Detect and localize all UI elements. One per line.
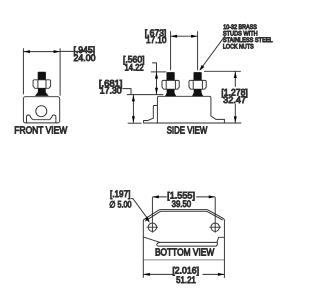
- dim .945 right extension line: [59, 48, 61, 95]
- side view body outline: [144, 96, 225, 123]
- front view stud threaded post: [38, 72, 46, 80]
- note leader line: [200, 35, 226, 70]
- side view stud 2 nut: [189, 80, 206, 89]
- dim 1.555 dimension line: [152, 196, 215, 198]
- dim .560 arrowheads: [155, 72, 158, 79]
- front view left foot: [27, 115, 33, 123]
- side view stud 1 nut: [162, 80, 179, 89]
- svg-text:32.47: 32.47: [223, 95, 246, 105]
- svg-text:51.21: 51.21: [176, 275, 196, 285]
- side view stud 2 nut facets: [193, 81, 202, 90]
- side view stud 1 lower shaft: [165, 89, 176, 96]
- dim .681 bottom extension line: [128, 122, 142, 124]
- dim 1.278 dimension line: [234, 72, 236, 123]
- front view recess line: [33, 119, 50, 121]
- svg-text:SIDE VIEW: SIDE VIEW: [167, 125, 208, 136]
- bottom view inner outline: [145, 211, 223, 221]
- dim .673 extension lines: [171, 31, 198, 70]
- dim 2.016 arrowheads: [143, 273, 150, 276]
- dim 1.555 arrowheads: [152, 195, 159, 198]
- bottom view contour diagonals: [143, 237, 224, 243]
- dim .673 dimension line: [171, 35, 198, 37]
- front view nut facets: [38, 80, 46, 88]
- svg-text:[.197]: [.197]: [110, 189, 130, 199]
- bottom view hole right: [211, 223, 219, 231]
- svg-text:24.00: 24.00: [74, 53, 96, 63]
- svg-text:14.22: 14.22: [125, 63, 144, 73]
- svg-text:BOTTOM VIEW: BOTTOM VIEW: [155, 248, 215, 259]
- dim .560 stud-top extension line: [151, 71, 166, 73]
- dim 2.016 extension lines: [143, 260, 224, 278]
- side view stud 1 nut facets: [166, 81, 175, 90]
- bottom view hole left crosshair: [147, 222, 159, 233]
- dim .673 arrowheads: [171, 35, 178, 38]
- bottom view slot: [157, 242, 218, 246]
- front view body: [23, 97, 59, 123]
- dim .197 leader arrowhead: [145, 217, 150, 223]
- svg-text:LOCK NUTS: LOCK NUTS: [223, 44, 254, 51]
- svg-text:∅ 5.00: ∅ 5.00: [109, 199, 131, 209]
- dim .945 dimension line: [23, 50, 95, 52]
- dim 2.016 dimension line: [143, 273, 224, 275]
- dim .945 right arrowhead: [54, 50, 61, 53]
- bottom view bottom edge: [143, 259, 224, 261]
- front view right foot: [50, 115, 56, 123]
- bottom view hole left: [148, 223, 156, 231]
- bottom view outer outline: [143, 210, 224, 261]
- note leader arrowhead: [199, 65, 204, 71]
- side view stud 1 post: [167, 72, 175, 80]
- dim .197 leader: [131, 199, 148, 219]
- dim .945 left extension line: [22, 48, 24, 94]
- bottom view hole right crosshair: [209, 222, 221, 233]
- side view stud 2 lower shaft: [192, 89, 203, 96]
- dim 1.278 top extension line: [204, 70, 241, 72]
- front view stud lower shaft: [35, 88, 49, 96]
- dim .681 dimension line: [132, 95, 134, 123]
- dim 1.278 arrowheads: [234, 72, 237, 79]
- front view circle boss: [36, 106, 47, 117]
- dim .560 top jog: [152, 63, 156, 72]
- dim .945 left arrowhead: [23, 50, 30, 53]
- front view hex nut: [33, 80, 51, 89]
- dim .560 dimension line: [156, 72, 158, 94]
- side view stud 2 post: [194, 72, 202, 80]
- leader jog 17.30: [123, 89, 131, 95]
- dim .681 arrowheads: [132, 95, 135, 102]
- svg-text:FRONT VIEW: FRONT VIEW: [14, 126, 67, 137]
- dim 1.278 bottom extension line: [224, 122, 241, 124]
- svg-text:17.30: 17.30: [100, 86, 122, 96]
- svg-text:17.10: 17.10: [146, 35, 167, 45]
- svg-text:39.50: 39.50: [172, 199, 192, 209]
- svg-text:[2.016]: [2.016]: [172, 266, 199, 276]
- dim 1.555 extension lines: [152, 197, 215, 222]
- shared extension line body top: [127, 94, 164, 96]
